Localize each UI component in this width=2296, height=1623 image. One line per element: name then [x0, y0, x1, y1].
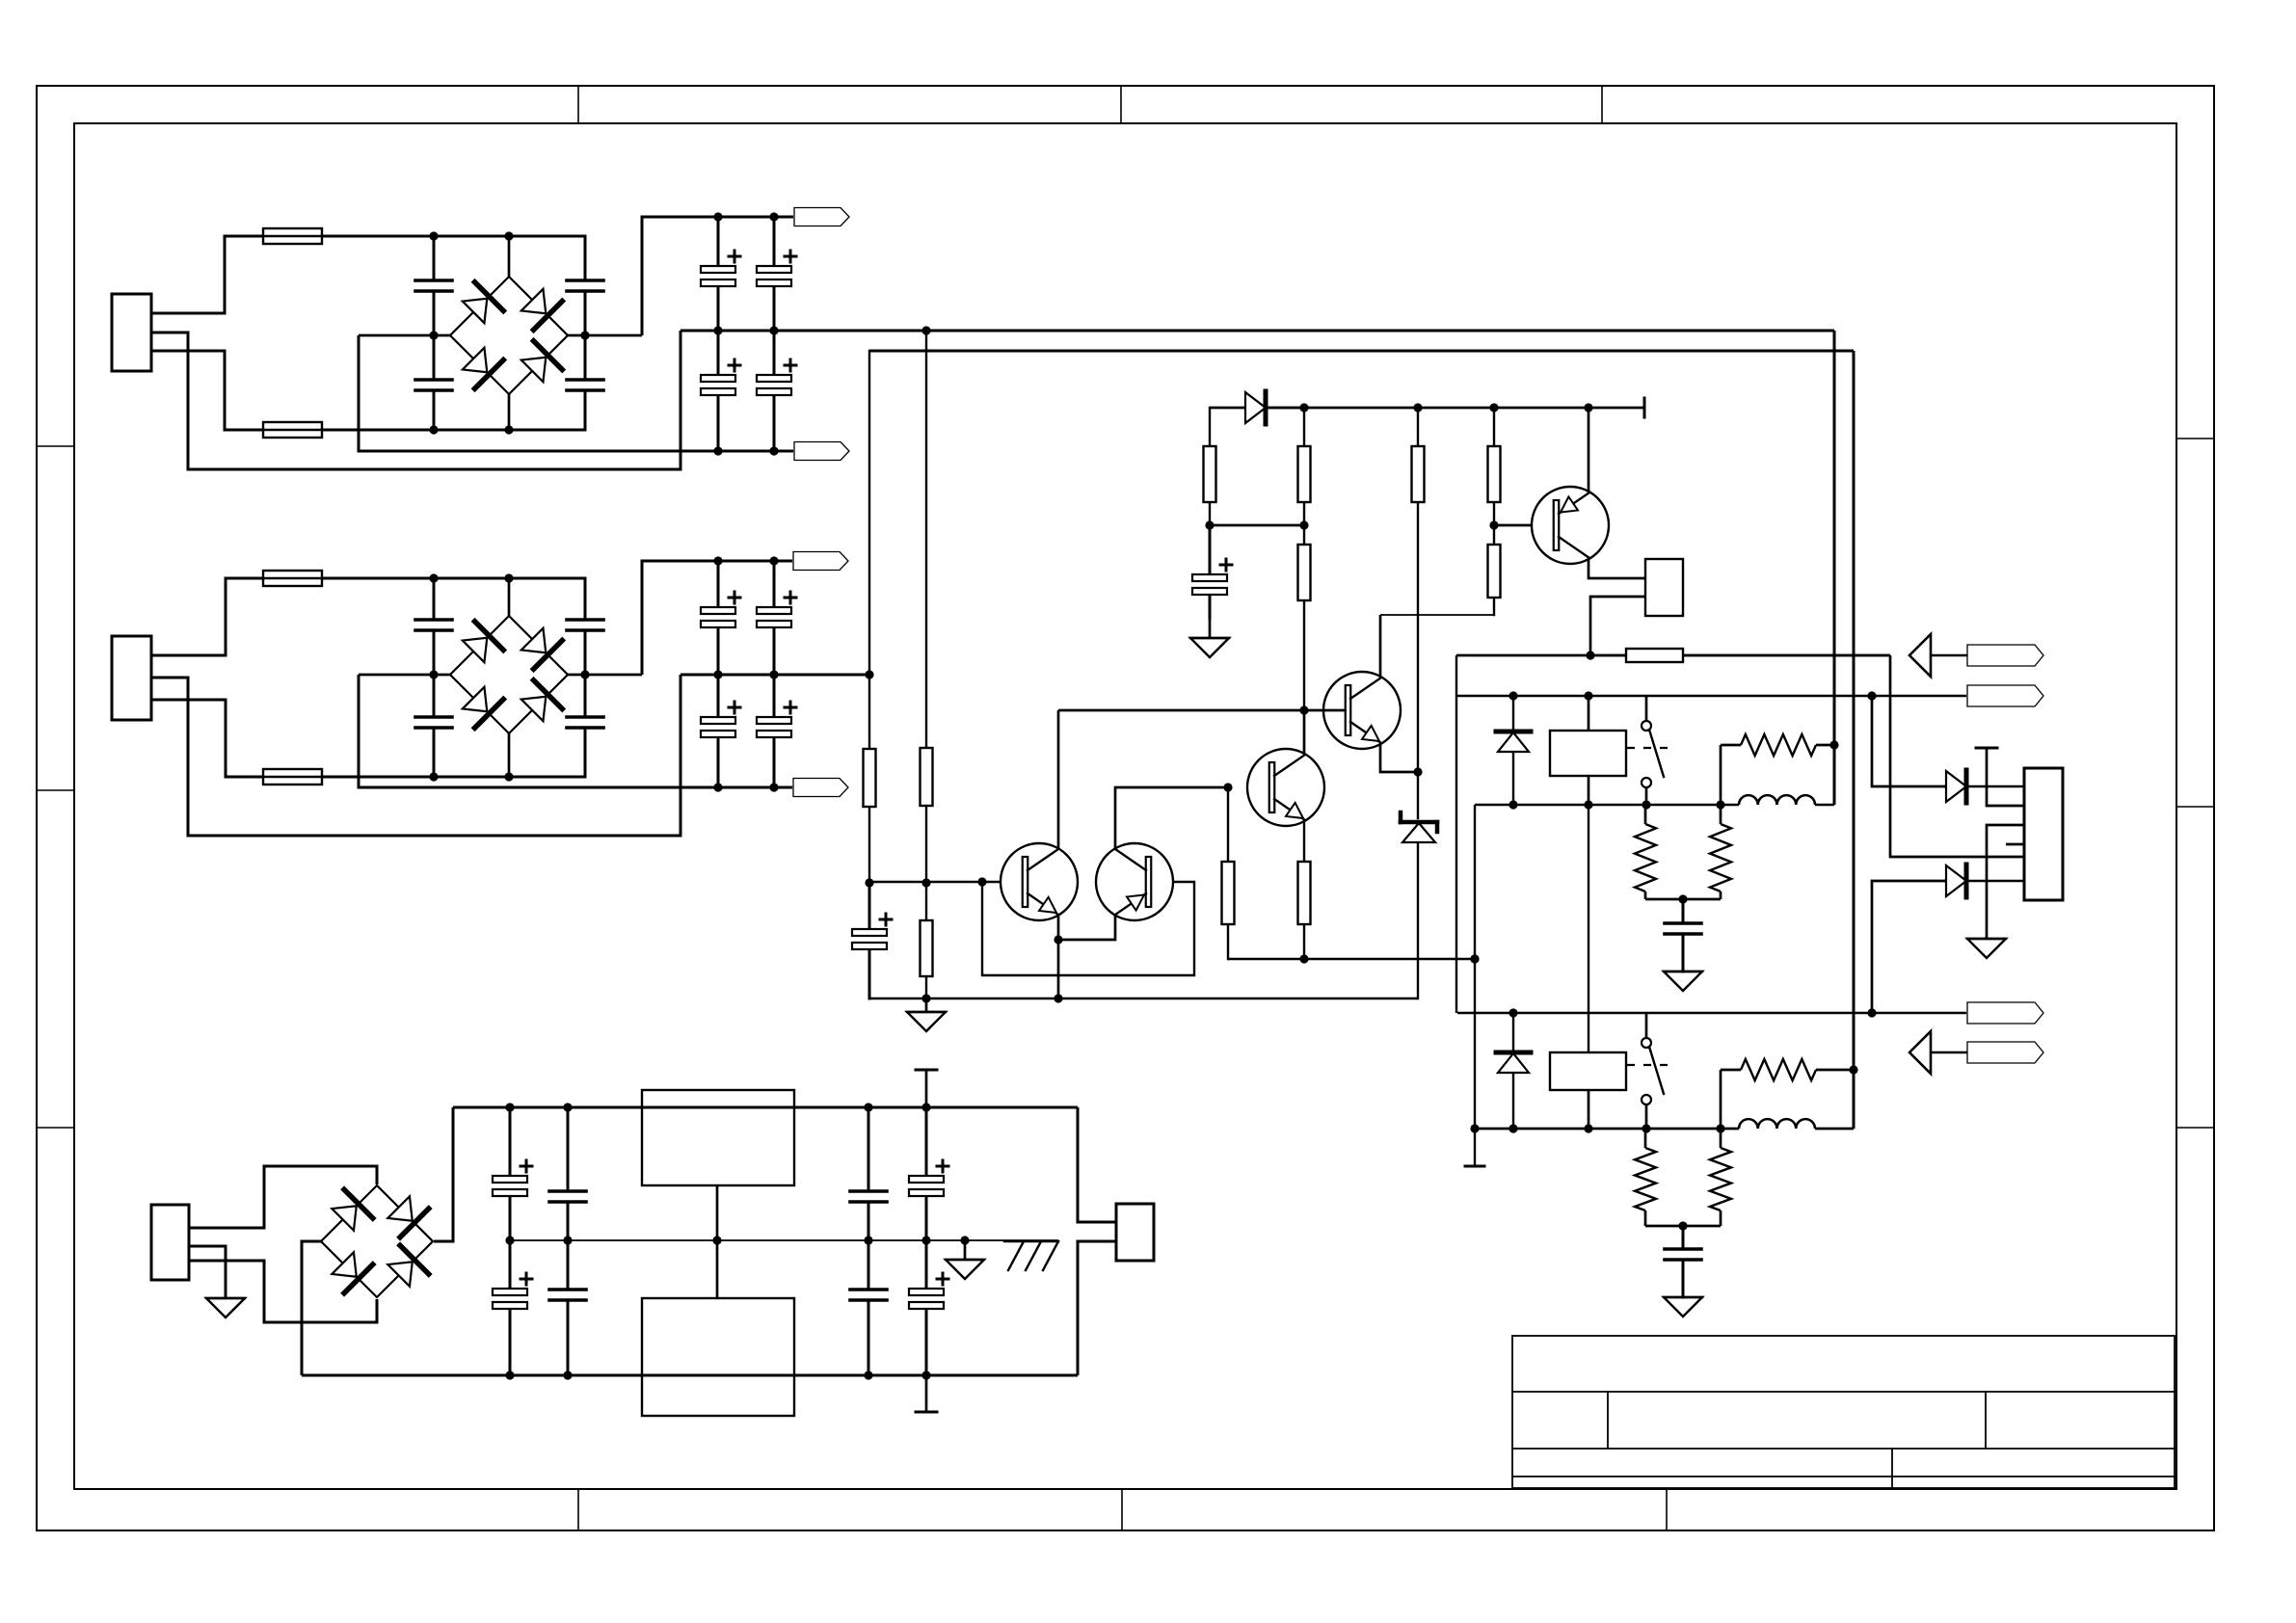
junction Q1-Q2 emitters [1054, 935, 1062, 944]
fuse F1 [262, 228, 323, 244]
junction AC2 top / C9 [429, 573, 438, 582]
wire common bar drop [1987, 748, 2024, 806]
terminal bar (bias supply tap) [1643, 398, 1646, 417]
wire gnd stem Q1 area [925, 998, 928, 1012]
ground GND7 [206, 1298, 245, 1317]
wire speaker2 feed [1872, 881, 1946, 1013]
wire relay column drop [1474, 805, 1476, 1166]
transistor Q1 [1001, 843, 1078, 920]
wire R18 left lead [1721, 1069, 1741, 1072]
wire R14 top lead [1720, 805, 1722, 824]
junction plus rail / C4 [580, 331, 589, 339]
capacitor C25 [850, 1107, 887, 1240]
resistor R8 [1488, 408, 1501, 525]
junction 0V / C27-C28 [921, 1236, 930, 1244]
title block row line 1 [1512, 1391, 2175, 1393]
junction rail / R5 [1299, 954, 1308, 963]
transistor Q3 [1247, 749, 1324, 826]
connector J3 (protect link) [1645, 559, 1683, 616]
junction AC2 bottom / C10 [429, 772, 438, 781]
capacitor C19 (snubber) [1665, 899, 1701, 971]
wire snubber tie 1 [1645, 898, 1721, 901]
fuse F4 [262, 769, 323, 785]
junction 0V / regulators [712, 1236, 721, 1244]
wire base U-link to Q2 [982, 882, 1194, 975]
border zone tick top x=600 [577, 86, 579, 123]
ground GND2 [1190, 638, 1229, 657]
diode D8 (flyback K2) [1496, 1013, 1531, 1129]
resistor R10 [1298, 525, 1311, 710]
capacitor C20 (snubber) [1665, 1226, 1701, 1297]
diode D7 (speaker1) [1945, 770, 2024, 803]
transistor Q2 [1096, 843, 1173, 920]
diode D6 (flyback K1) [1496, 696, 1531, 805]
border zone tick left y=820 [37, 789, 74, 791]
bridge rectifier BR2 [450, 616, 568, 733]
terminal bar (-raw tap) [916, 1411, 937, 1414]
wire J4 pin3 to BR3 bottom [189, 1261, 377, 1322]
junction AC top / C1 [429, 231, 438, 240]
capacitor C26 [850, 1240, 887, 1375]
wire R18 right lead [1816, 1069, 1854, 1072]
capacitor C7 (filter +) [757, 217, 796, 331]
junction 0V / R2 column [921, 326, 930, 334]
wire R15 corner drop [1720, 745, 1722, 805]
junction R6 / R10 [1299, 520, 1308, 529]
junction plus2 / C12 [580, 670, 589, 678]
ground GND1 [907, 1012, 946, 1031]
wire -raw rail [302, 1374, 1078, 1377]
capacitor C28 (out filter -) [909, 1240, 948, 1375]
junction R9 / C18 [1205, 520, 1214, 529]
wire Q4 emitter [1380, 743, 1418, 772]
junction AC2 bottom / bridge bottom [504, 772, 513, 781]
diode D5 (bias) [1245, 391, 1304, 424]
capacitor C18 (bias filter) [1192, 525, 1232, 618]
connector J1 (AC input 1) [112, 294, 151, 371]
capacitor C10 (snubber) [415, 675, 452, 777]
wire Q5 base link [1494, 524, 1554, 527]
resistor R1 [864, 351, 876, 883]
capacitor C2 (snubber) [415, 335, 452, 430]
relay contact SW2 lever [1649, 1047, 1664, 1094]
arrow input IN2 [1909, 1031, 1931, 1074]
title block column divider B [1985, 1392, 1987, 1449]
title block row line 3 [1512, 1476, 2175, 1477]
wire emitter-resistor rail [1229, 958, 1475, 960]
wire +raw rail [453, 1106, 1078, 1109]
transistor Q4 [1323, 672, 1401, 749]
junction snubber tie 2 [1678, 1221, 1687, 1230]
wire snubber tie 2 [1645, 1225, 1721, 1228]
wire relay feed line K2 [1457, 1012, 1966, 1014]
wire K2 coil top lead [1588, 805, 1589, 1052]
wire L2 to sense drop [1815, 1128, 1854, 1131]
junction +V / C5 [713, 212, 722, 221]
wire BR3 plus out [434, 1107, 453, 1241]
resistor R9 (bias filter) [1204, 408, 1216, 525]
resistor R5 (Q3 emitter) [1298, 820, 1311, 959]
wire Q1-collector to Q4 base [1058, 709, 1304, 712]
junction feed2 / speaker drop [1867, 1008, 1876, 1017]
terminal bar (relay column) [1465, 1165, 1484, 1168]
capacitor C6 (filter -) [701, 331, 740, 451]
wire +raw tap stem [925, 1070, 928, 1107]
wire Q4 collector link [1380, 598, 1494, 615]
resistor R11 [1488, 525, 1501, 615]
junction K1 rail / R14 [1716, 800, 1724, 809]
junction snubber tie 1 [1678, 894, 1687, 903]
wire J1 pin3 to fuse F2 [151, 351, 262, 430]
border zone tick right y=837 [2176, 806, 2214, 808]
junction +raw / C27 [921, 1103, 930, 1111]
wire R14 bottom lead [1720, 891, 1722, 899]
connector J5 (DC output) [1116, 1204, 1154, 1261]
capacitor C14 (filter -) [701, 675, 740, 787]
junction K2 rail / R17 [1716, 1124, 1724, 1132]
net flag IN2 [1967, 1042, 2043, 1063]
border zone tick left y=463 [37, 445, 74, 447]
capacitor C23 [549, 1107, 586, 1240]
wire R9-R6 link [1210, 524, 1304, 527]
junction K1 rail / coil [1584, 800, 1592, 809]
zener diode ZD1 [1401, 772, 1437, 998]
wire SW1 pole stub [1645, 696, 1648, 721]
wire plus riser to +V2 rail [642, 561, 792, 675]
net flag OUT2 feed [1967, 1002, 2043, 1024]
capacitor C24 [549, 1240, 586, 1375]
junction Q4 emitter / zener column [1413, 767, 1422, 776]
wire Q1 emitter drop [1057, 915, 1060, 998]
junction AC top / bridge top [504, 231, 513, 240]
wire bias row left corner [1210, 407, 1245, 410]
junction sense / J3 link [1586, 651, 1594, 659]
junction feed / D6 [1508, 691, 1517, 700]
wire K1 coil bottom lead [1588, 776, 1590, 805]
junction +raw / C23 [563, 1103, 572, 1111]
wire minus jog to -V2 rail [359, 675, 792, 787]
junction K2 rail / coil [1584, 1124, 1592, 1132]
wire 0V rail block2 [681, 674, 869, 677]
junction K2 rail / D8 [1508, 1124, 1517, 1132]
border zone tick right y=1170 [2176, 1127, 2214, 1129]
junction -raw / C26 [864, 1370, 872, 1379]
wire SW2 throw stub [1645, 1104, 1648, 1129]
junction R15 / 0V drop [1829, 740, 1838, 749]
border zone tick top x=1163 [1120, 86, 1122, 123]
junction feed / K1 coil [1584, 691, 1592, 700]
net flag IN1 [1967, 645, 2043, 666]
fuse F2 [262, 422, 323, 438]
junction K2 rail / SW2 [1642, 1124, 1650, 1132]
wire regulator 0V rail [510, 1239, 1058, 1241]
border zone tick bottom x=600 [577, 1489, 579, 1530]
wire Q1 collector riser [1057, 710, 1060, 849]
junction bias / R8 [1489, 403, 1498, 412]
title block column divider A [1607, 1392, 1609, 1449]
border zone tick left y=1170 [37, 1127, 74, 1129]
capacitor C22 (raw filter -) [493, 1240, 532, 1375]
wire U2 ground pin [716, 1240, 719, 1298]
resistor R17 (zigzag) [1710, 1148, 1731, 1211]
junction R1 / base rail [865, 878, 873, 887]
junction minus2 / C10 [429, 670, 438, 678]
wire AC top rail (bridge D1 top) [322, 235, 585, 238]
wire BR3 minus out [302, 1241, 321, 1375]
junction 0V2 / C15-C16 [769, 670, 778, 678]
junction feed / speaker drop [1867, 691, 1876, 700]
capacitor C11 (snubber) [567, 578, 603, 675]
connector J6 (speaker output) [2024, 768, 2063, 900]
capacitor C3 (snubber) [567, 236, 603, 335]
wire sense long drop [1853, 351, 1855, 1129]
wire J2 pin3 to fuse F4 [151, 700, 262, 777]
capacitor C13 (filter +) [701, 561, 740, 675]
net flag +V2 [793, 552, 848, 571]
ground GND8 [946, 1260, 984, 1279]
wire R13 top lead [1644, 805, 1647, 824]
capacitor C9 (snubber) [415, 578, 452, 675]
junction -V / C6 [713, 446, 722, 455]
ground GND5 [1664, 1297, 1702, 1317]
relay K1 coil [1550, 731, 1626, 776]
junction -raw / C24 [563, 1370, 572, 1379]
relay contact SW1 pole [1642, 721, 1651, 731]
diode D9 (speaker2) [1945, 865, 2024, 897]
junction +V2 / C15 [769, 556, 778, 565]
wire Q5 emitter riser [1588, 408, 1590, 492]
capacitor C12 (snubber) [567, 675, 603, 777]
wire J3 pin2 to sense line [1590, 597, 1645, 655]
wire J4 pin1 to BR3 top [189, 1166, 377, 1228]
junction 0V2 / C13-C14 [713, 670, 722, 678]
wire K2 coil bottom lead [1588, 1090, 1590, 1129]
title block column divider C [1891, 1449, 1893, 1488]
regulator U1 (positive) [642, 1090, 794, 1185]
wire L1 to 0V drop [1815, 804, 1834, 806]
chassis ground symbol [1004, 1241, 1058, 1270]
wire relay feed line K1 [1456, 695, 1966, 697]
wire sense to speaker pin4 [1890, 655, 2024, 857]
wire bridge BR1 top vertex stub [508, 236, 511, 277]
connector J2 (AC input 2) [112, 636, 151, 720]
wire sense line (relay row) [1456, 654, 1890, 657]
capacitor C4 (snubber) [567, 335, 603, 430]
wire -raw to J5 pin2 [1078, 1241, 1116, 1375]
wire J2 pin1 to fuse F3 [151, 578, 262, 655]
capacitor C21 (raw filter +) [493, 1107, 532, 1240]
capacitor C5 (filter +) [701, 217, 740, 331]
junction K1 rail / D6 [1508, 800, 1517, 809]
wire GND8 stem [964, 1240, 967, 1260]
junction +raw / C25 [864, 1103, 872, 1111]
wire R16 bottom lead [1644, 1211, 1647, 1226]
sheet inner border [74, 123, 2176, 1489]
junction AC bottom / C2 [429, 425, 438, 434]
wire 0V long drop [1833, 331, 1836, 805]
wire AC bottom rail (bridge D1 bottom) [322, 429, 585, 432]
junction -V2 / C14 [713, 783, 722, 791]
wire IN1 flag tail [1931, 654, 1967, 656]
net flag +V1 [794, 208, 849, 226]
wire C18 gnd stem [1209, 615, 1212, 638]
wire AC bottom rail 2 [322, 776, 585, 779]
relay SW1 actuator dashes [1627, 747, 1673, 749]
wire BR2 plus rail segment [568, 674, 642, 677]
wire speaker pin3 to gnd [1987, 825, 2024, 939]
wire bridge BR1 bottom vertex stub [508, 394, 511, 430]
relay contact SW1 throw [1642, 778, 1651, 787]
border zone tick top x=1662 [1601, 86, 1603, 123]
wire R15 right lead [1816, 744, 1834, 747]
terminal bar (speaker common) [1976, 747, 1997, 750]
wire +raw to J5 pin1 [1078, 1107, 1116, 1222]
wire R4 to rail [1228, 958, 1229, 961]
title block outline [1512, 1336, 2175, 1488]
arrow input IN1 [1909, 634, 1931, 677]
wire R17 bottom lead [1720, 1211, 1722, 1226]
relay contact SW2 pole [1642, 1038, 1651, 1048]
resistor R6 [1298, 408, 1311, 525]
wire R13 bottom lead [1644, 891, 1647, 899]
resistor R4 [1222, 787, 1235, 959]
wire bottom rail (emitters) [869, 998, 1418, 999]
junction bias / Q5 emitter [1584, 403, 1592, 412]
junction +V2 / C13 [713, 556, 722, 565]
wire left tie riser [1455, 655, 1457, 1013]
junction -V / C8 [769, 446, 778, 455]
title block row line 2 [1512, 1448, 2175, 1450]
wire IN2 flag tail [1931, 1051, 1967, 1053]
resistor R16 (zigzag) [1635, 1148, 1656, 1211]
junction +raw / C21 [505, 1103, 514, 1111]
ground GND6 [1967, 939, 2006, 958]
junction Q4 base node [1299, 705, 1308, 714]
wire bias row [1266, 407, 1644, 410]
junction 0V / C21-C22 [505, 1236, 514, 1244]
junction rail / relay drop [1470, 954, 1479, 963]
junction AC bottom / bridge bottom [504, 425, 513, 434]
wire base rail [869, 881, 1026, 883]
bridge rectifier BR1 [450, 277, 568, 394]
junction -raw / C28 [921, 1370, 930, 1379]
junction base rail / U-link [977, 877, 986, 886]
wire BR2 minus rail segment [359, 674, 450, 677]
bridge rectifier BR3 [321, 1185, 433, 1297]
junction AC2 top / bridge top [504, 573, 513, 582]
junction R8 / Q5 base [1489, 520, 1498, 529]
junction minus rail / C2 [429, 331, 438, 339]
junction 0V / C7-C8 [769, 326, 778, 334]
junction R18 / sense drop [1849, 1065, 1857, 1074]
resistor R18 (zigzag) [1741, 1059, 1816, 1080]
net flag -V1 [794, 442, 849, 461]
resistor R14 (zigzag) [1710, 824, 1731, 891]
wire BR1 plus rail segment [568, 334, 642, 337]
junction bottom rail / Q1 emitter [1054, 994, 1062, 1002]
wire Q4 collector riser [1379, 615, 1382, 678]
junction Q3 base / R4 [1223, 783, 1232, 791]
wire speaker pin stub [2006, 843, 2024, 846]
wire bridge BR2 top vertex stub [508, 578, 511, 616]
inductor L1 [1739, 795, 1815, 805]
junction 0V / C5-C6 [713, 326, 722, 334]
wire Q3 collector riser [1303, 710, 1306, 755]
connector J4 (aux AC input) [151, 1205, 189, 1280]
junction R2 / base rail [921, 878, 930, 887]
relay K2 coil [1550, 1052, 1626, 1090]
junction +V / C7 [769, 212, 778, 221]
wire Q2 emitter drop [1058, 915, 1115, 940]
net flag OUT1 feed [1967, 685, 2043, 706]
wire Q2 collector riser [1115, 787, 1228, 849]
wire Q4 base stub [1304, 709, 1347, 712]
junction K1 rail / SW1 [1642, 800, 1650, 809]
resistor R2 [921, 331, 933, 883]
fuse F3 [262, 571, 323, 586]
resistor R7 [1412, 408, 1425, 772]
wire Q5 collector to J3 pin1 [1589, 558, 1645, 578]
capacitor C27 (out filter +) [909, 1107, 948, 1240]
resistor R13 (zigzag) [1635, 824, 1656, 891]
wire R15 left lead [1721, 744, 1741, 747]
wire 0V rail block1 [681, 330, 1834, 333]
junction 0V2 joins R1 column [865, 670, 873, 678]
wire SW1 throw stub [1645, 787, 1648, 805]
capacitor C17 (base filter) [852, 883, 892, 998]
border zone tick right y=455 [2176, 438, 2214, 439]
wire J2 pin2 to 0V riser 2 [151, 675, 681, 836]
junction drop / K2 rail [1470, 1124, 1479, 1132]
junction drop / emitter rail [1470, 954, 1479, 963]
capacitor C16 (filter -) [757, 675, 796, 787]
capacitor C15 (filter +) [757, 561, 796, 675]
wire plus riser to +V rail [642, 217, 793, 335]
relay SW2 actuator dashes [1627, 1064, 1673, 1066]
junction -raw / C22 [505, 1370, 514, 1379]
junction bias / R6 [1299, 403, 1308, 412]
wire speaker1 feed [1872, 696, 1946, 786]
wire K1 coil top lead [1588, 696, 1590, 731]
wire bridge BR2 bottom vertex stub [508, 733, 511, 777]
wire R16 top lead [1644, 1129, 1647, 1148]
wire BR1 minus rail segment [359, 334, 450, 337]
junction 0V / C25-C26 [864, 1236, 872, 1244]
net flag -V2 [793, 779, 848, 797]
junction feed2 / D8 [1508, 1008, 1517, 1017]
border zone tick bottom x=1729 [1666, 1489, 1668, 1530]
resistor R3 [921, 883, 933, 998]
wire -raw tap stem [925, 1375, 928, 1412]
junction bias / R7 [1413, 403, 1422, 412]
junction -V2 / C16 [769, 783, 778, 791]
border zone tick bottom x=1164 [1121, 1489, 1123, 1530]
terminal bar (+raw tap) [916, 1069, 937, 1072]
ground GND4 [1664, 971, 1702, 991]
junction 0V / C23-C24 [563, 1236, 572, 1244]
capacitor C8 (filter -) [757, 331, 796, 451]
capacitor C1 (snubber) [415, 236, 452, 335]
wire J1 pin1 to fuse F1 [151, 236, 262, 313]
wire J1 pin2 to 0V riser [151, 331, 681, 469]
wire AC top rail 2 [322, 577, 585, 580]
wire sense line top [869, 350, 1854, 353]
resistor R12 (sense) [1600, 649, 1889, 662]
wire K1 bottom rail [1475, 804, 1739, 806]
resistor R15 (zigzag) [1741, 734, 1816, 756]
relay contact SW2 throw [1642, 1095, 1651, 1104]
junction 0V / GND8 [960, 1236, 969, 1244]
